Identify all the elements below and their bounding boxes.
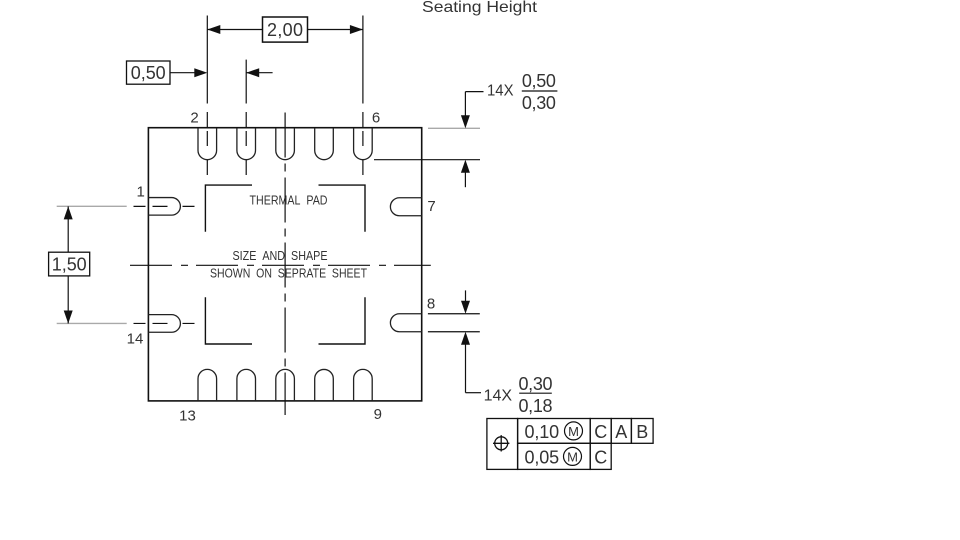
thermal pad corner bracket bottom-right [319, 297, 366, 344]
bottom-right: pin 8 top edge extension [428, 313, 480, 315]
arrowhead up 1,50 [64, 206, 73, 219]
svg-text:9: 9 [374, 406, 382, 423]
pin 11 (bottom) [276, 369, 295, 400]
pin 3 extension line [245, 60, 247, 104]
svg-text:6: 6 [372, 109, 380, 126]
feature control frame [487, 419, 653, 470]
top-right: extension of pin tip line [374, 159, 480, 161]
package outline [148, 128, 421, 401]
svg-text:THERMAL PAD: THERMAL PAD [250, 193, 328, 208]
thermal pad corner bracket top-right [319, 185, 366, 232]
svg-text:0,50: 0,50 [131, 63, 166, 83]
pin 9 (bottom) [354, 369, 373, 400]
svg-text:0,30: 0,30 [522, 93, 556, 113]
svg-text:0,30: 0,30 [519, 374, 553, 394]
svg-text:14: 14 [127, 330, 144, 347]
pin 3 center dash [245, 131, 247, 176]
svg-text:1,50: 1,50 [52, 255, 87, 275]
svg-text:2,00: 2,00 [267, 20, 303, 40]
arrowhead left of 2,00 [207, 25, 220, 34]
arrow tail below [464, 172, 466, 187]
arrowhead down to package edge [461, 115, 470, 128]
svg-text:B: B [636, 422, 648, 442]
pin 2 center dash [206, 131, 208, 176]
svg-text:A: A [615, 422, 627, 442]
thermal pad corner bracket top-left [205, 185, 252, 232]
svg-text:0,05: 0,05 [525, 447, 560, 467]
dimension 1,50 line [67, 206, 69, 323]
leader 0,50 [170, 72, 196, 74]
pin 6 extension line [362, 16, 364, 104]
arrow line below [465, 344, 467, 393]
top-right: extension of package top edge (gray) [428, 127, 480, 129]
dimension box 0,50 [127, 61, 171, 84]
arrowhead up to pin8 bottom [461, 332, 470, 345]
dimension 2,00 line right [308, 29, 363, 31]
pin 7 (right) [390, 198, 421, 216]
pin 12 (bottom) [237, 369, 256, 400]
svg-text:7: 7 [427, 198, 435, 215]
svg-text:SHOWN ON SEPRATE SHEET: SHOWN ON SEPRATE SHEET [210, 266, 367, 281]
pin 13 (bottom) [198, 369, 217, 400]
pitch arrow at pin 3 [246, 68, 259, 77]
svg-text:0,18: 0,18 [519, 396, 553, 416]
arrowhead down 1,50 [64, 310, 73, 323]
pin 2 (top) [198, 128, 217, 160]
svg-text:8: 8 [427, 296, 435, 313]
svg-text:0,10: 0,10 [525, 422, 560, 442]
leader to text [466, 392, 482, 394]
dimension 2,00 line left [207, 29, 262, 31]
arrowhead 0,50 [194, 68, 207, 77]
dimension box 2,00 [263, 17, 308, 42]
pin 8 (right) [390, 314, 421, 332]
leader vertical (lead length dim) [464, 92, 466, 117]
pin 2 extension line [206, 16, 208, 104]
svg-text:13: 13 [179, 408, 196, 425]
thermal pad corner bracket bottom-left [205, 297, 252, 344]
dimension box 1,50 [49, 252, 90, 276]
pin 4 (top) [276, 128, 295, 160]
svg-text:1: 1 [137, 183, 145, 200]
svg-text:14X: 14X [484, 388, 513, 405]
bottom-right: pin 8 bottom edge extension [428, 331, 480, 333]
arrowhead right of 2,00 [350, 25, 363, 34]
leader horizontal [465, 91, 483, 93]
pitch arrow tail [246, 72, 272, 74]
svg-text:Seating Height: Seating Height [422, 0, 538, 16]
svg-text:SIZE AND SHAPE: SIZE AND SHAPE [233, 248, 328, 263]
pin 14 center dash [134, 322, 197, 324]
M circle row 2 [564, 447, 582, 465]
arrowhead down to pin8 top [461, 301, 470, 314]
svg-text:14X: 14X [487, 82, 514, 99]
pin 1 (left) [148, 198, 180, 216]
pin 1 center dash [134, 205, 197, 207]
svg-text:0,50: 0,50 [522, 71, 556, 91]
svg-text:M: M [568, 424, 579, 439]
arrowhead up to pin tip [461, 160, 470, 173]
pin 10 (bottom) [315, 369, 334, 400]
extension line pin14 center (gray) [57, 322, 127, 324]
extension line pin1 center (gray) [57, 205, 127, 207]
arrow line above [465, 290, 467, 302]
pin 14 (left) [148, 315, 180, 333]
svg-text:C: C [594, 422, 607, 442]
horizontal center line [130, 264, 431, 266]
pin 6 (top) [354, 128, 373, 160]
pin 6 center dash [362, 131, 364, 176]
svg-text:C: C [594, 447, 607, 467]
svg-text:M: M [567, 449, 578, 464]
pin 5 (top) [315, 128, 334, 160]
svg-text:2: 2 [190, 109, 198, 126]
pin 3 (top) [237, 128, 256, 160]
vertical center line [284, 113, 286, 416]
M circle row 1 [565, 422, 583, 440]
position symbol [493, 435, 509, 451]
